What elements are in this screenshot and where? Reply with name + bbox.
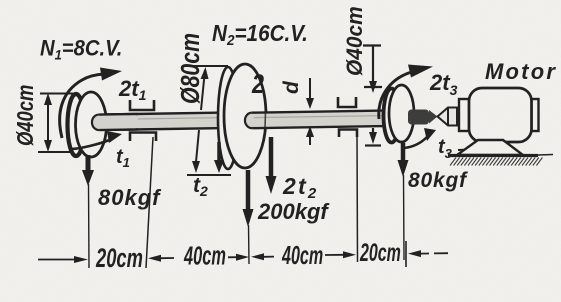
dimension chain at bottom [38,241,448,267]
coupling cone to motor [438,108,458,126]
dimension d40 right: leader and arrows [363,46,382,146]
pulley 2 back rim [218,67,238,169]
dimension d40 left: vertical double arrow [38,93,76,152]
force arrow 80kgf at pulley 1 [82,155,94,268]
arrow pointing left into x=406 [408,250,421,257]
arrow pointing left into x=249 [251,253,264,260]
belt arrow 2t2 (down from pulley 2 right) [266,137,277,194]
bearing 2 brackets [338,97,356,107]
pulley 1 back rim [68,94,85,156]
bearing 1 extension line [146,137,153,268]
pulley 2 front face [224,64,266,168]
motor body [469,88,532,142]
shaft stub through pulley 1 [92,114,138,130]
bearing 1 brackets [130,100,154,110]
belt arrow 2t3 (curved, over pulley 3) [379,65,433,120]
force arrow 80kgf at pulley 3 [398,143,409,260]
motor base [457,140,523,155]
ground hatching [450,158,542,166]
paper noise texture [0,0,1,1]
pulley 2 front rim edge crossing shaft [264,112,267,128]
ground line [448,154,538,157]
pulley 3 front face [389,85,414,142]
pulley 3 back rim [384,89,400,143]
shaft hub at pulley 3 [408,110,438,125]
shaft segment A (left, pulley1 to pulley2) [91,112,232,130]
extension line at x=406 [405,241,407,267]
arrow pointing right into x=249 [228,256,236,258]
dimension d80: vertical arrows and ticks [184,66,231,175]
arrow pointing right into x=357.5 [325,254,343,256]
leading dash and arrow to x=89 [38,259,74,261]
arrow pointing left into x=146 [148,255,161,262]
pulley 1 front face [76,92,107,157]
force arrow 200kgf from pulley 2 [243,170,254,264]
dimension d arrows at shaft [306,78,314,145]
motor left cap [459,99,469,131]
bearing 2 extension line [356,136,359,262]
tick right of t3 [458,149,470,152]
belt arrow t1 (lower, toward pulley 1) [70,131,122,149]
belt arrow t2 (down from pulley 2 left) [214,142,224,173]
motor right cap [532,99,539,131]
belt arrow t3 (lower, toward coupling) [404,128,436,148]
shaft segment B (pulley2 to pulley3) [245,110,394,128]
belt arrow 2t1 (curved, over pulley 1) [60,68,122,139]
